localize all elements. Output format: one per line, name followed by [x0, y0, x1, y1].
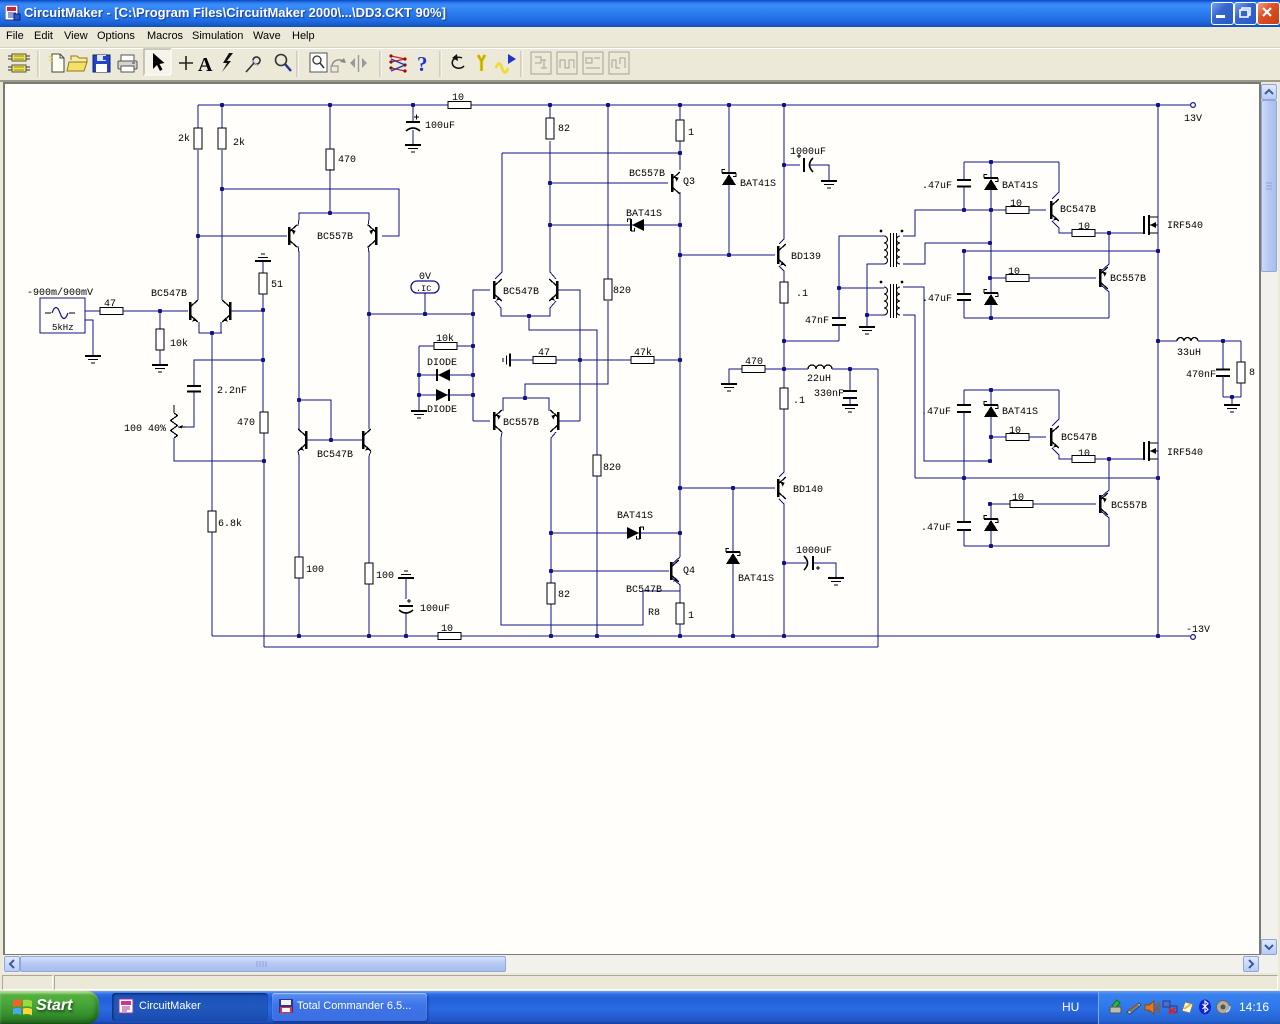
wire source return [85, 320, 93, 355]
wire output to feedback riser [850, 368, 878, 370]
capacitor 100uF (bottom, -13V) [398, 577, 414, 579]
toolbar icon: zoom [276, 55, 287, 66]
wire emitters to 820 load [525, 301, 608, 398]
wire gnd to 47 [510, 359, 533, 361]
wire node down to output pair base [579, 360, 581, 421]
diode BAT41S (clamp upper) [630, 219, 632, 231]
menu bar [0, 27, 1280, 48]
inductor 22uH [784, 368, 808, 370]
svg-text:10: 10 [1009, 426, 1021, 437]
svg-text:10: 10 [1078, 222, 1090, 233]
wire right collector to 2k [221, 150, 223, 300]
transistor BC557B (lower driver) [1099, 495, 1102, 513]
source V1 -900m/900mV 5kHz [40, 298, 85, 333]
capacitor 2.2nF [187, 385, 201, 387]
wire lower pnp base node [991, 503, 1010, 505]
wire lower npn emitter [1052, 448, 1072, 459]
transistor BC547B (lower driver) [1050, 428, 1053, 446]
resistor 100 (left) [295, 557, 303, 578]
resistor R8 1 [676, 603, 684, 624]
wire lower pnp collector [1101, 459, 1109, 497]
svg-text:330nF: 330nF [814, 389, 844, 400]
svg-text:BC547B: BC547B [1060, 205, 1096, 216]
resistor 10k (input bias) [156, 329, 164, 350]
wire tail to -13V rail [211, 532, 213, 636]
wire comparator left collector [495, 153, 502, 279]
wire 470fb bottom node [263, 433, 265, 461]
ground (source) [85, 355, 101, 357]
diode BAT41S (rail upper) [722, 172, 736, 174]
toolbar icon: reset (circular arrow) [452, 57, 464, 68]
svg-text:2.2nF: 2.2nF [217, 386, 247, 397]
svg-text:100uF: 100uF [425, 121, 455, 132]
ground (1000uF upper) [821, 180, 837, 182]
transistor BD139 [777, 246, 780, 264]
transistor BC557B (upper driver) [1099, 269, 1102, 287]
capacitor .47uF (lower boot) [963, 390, 965, 405]
svg-text:DIODE: DIODE [427, 358, 457, 369]
capacitor 47nF [784, 340, 839, 342]
svg-text:10k: 10k [436, 333, 454, 345]
resistor 10 (lower npn base) [1006, 434, 1029, 441]
wire 51 to base node [262, 294, 264, 310]
wire BD140 base [680, 487, 775, 489]
resistor 10k (clamp) [434, 343, 457, 350]
wire Q3 base [550, 182, 668, 184]
wire mirror diode connection [299, 400, 331, 440]
mosfet IRF540 (upper) [1143, 216, 1145, 234]
transistor BC557B (2nd stage left) [288, 227, 291, 245]
svg-text:10k: 10k [170, 338, 188, 350]
resistor 8 (load) [1240, 341, 1242, 362]
svg-text:8: 8 [1249, 368, 1255, 379]
inductor 33uH [1158, 340, 1177, 342]
diode BAT41S (upper boot) [990, 162, 992, 177]
resistor 10 (bottom rail inline) [438, 633, 461, 640]
svg-text:BAT41S: BAT41S [617, 511, 653, 522]
svg-text:.47uF: .47uF [922, 294, 952, 305]
wire upper npn emitter [1052, 221, 1072, 233]
svg-text:10: 10 [1012, 493, 1024, 504]
wire left collector down [298, 246, 299, 429]
toolbar icon: open [67, 56, 87, 71]
task button Total Commander [272, 993, 427, 1021]
wire upper pnp base node [991, 277, 1006, 279]
svg-text:6.8k: 6.8k [218, 518, 242, 530]
svg-text:470: 470 [745, 357, 763, 368]
resistor 2k (left) [194, 128, 202, 149]
toolbar icon: rotate [332, 60, 344, 66]
wire diode chain column right [472, 314, 474, 421]
svg-text:10: 10 [1010, 199, 1022, 210]
svg-text:BAT41S: BAT41S [626, 209, 662, 220]
wire mirror right emitter [369, 451, 371, 563]
svg-text:1000uF: 1000uF [790, 147, 826, 158]
svg-text:?: ? [417, 52, 428, 76]
wire driver right collector [551, 432, 556, 636]
bluetooth [1199, 1000, 1211, 1015]
resistor 100 (right) [365, 563, 373, 584]
wire lower pnp emitter [1101, 511, 1109, 545]
resistor 47 (reference) [533, 357, 556, 364]
svg-text:100uF: 100uF [420, 604, 450, 615]
task button CircuitMaker (active) [112, 993, 268, 1021]
wire upper npn collector [1052, 162, 1059, 199]
svg-text:BC557B: BC557B [629, 169, 665, 180]
wire y153 driver top [502, 152, 680, 154]
wire upper mosfet column [1157, 104, 1159, 341]
svg-text:470nF: 470nF [1186, 370, 1216, 381]
status bar [0, 973, 1280, 991]
wire mirror left emitter [298, 451, 299, 557]
toolbar icon: Y wrench [478, 55, 485, 71]
wire lower block top rail [964, 389, 1059, 391]
svg-text:47: 47 [538, 348, 550, 359]
resistor 10 (upper npn base) [1006, 207, 1029, 214]
svg-text:BAT41S: BAT41S [1002, 181, 1038, 192]
svg-text:BAT41S: BAT41S [740, 179, 776, 190]
svg-text:100: 100 [376, 571, 394, 582]
audio/cd [1217, 1001, 1231, 1014]
transistor BC547B (upper driver) [1050, 201, 1053, 219]
transistor BC557B (2nd stage right) [375, 227, 378, 245]
svg-text:82: 82 [558, 124, 570, 135]
transistor BC557B (driver pair right) [557, 412, 560, 430]
wire BAT41S clamp lower [551, 532, 680, 534]
toolbar icon: wire tool + [179, 56, 193, 70]
wire -13V bottom rail [212, 635, 438, 637]
svg-text:BC557B: BC557B [317, 232, 353, 243]
wire 2k left collector node to PNP base [198, 235, 287, 237]
svg-text:A: A [198, 54, 213, 76]
svg-text:22uH: 22uH [807, 374, 831, 385]
wire T1 primary top [839, 236, 884, 288]
wire pot bottom to feedback rail [174, 438, 264, 461]
wire tail upper [211, 333, 213, 511]
svg-text:.1: .1 [796, 289, 808, 300]
wire T1 secondary top [903, 210, 964, 236]
wire BD139 base [680, 254, 775, 256]
diode BAT41S (rail lower) [726, 551, 740, 553]
volume [1145, 1001, 1160, 1014]
wire comparator right collector [550, 141, 556, 279]
svg-text:BAT41S: BAT41S [1002, 407, 1038, 418]
resistor 2k (right) [218, 128, 226, 149]
resistor 1 (Q3) [676, 120, 684, 141]
wire Q3 emitter node [679, 141, 681, 153]
wire lower mosfet column [1157, 341, 1159, 637]
wire 10k to ground [159, 350, 161, 364]
wire IC node horizontal [369, 313, 473, 315]
resistor 47 (input) [100, 308, 123, 315]
vertical scrollbar [1261, 84, 1278, 955]
title bar [0, 0, 1280, 27]
wire comparator left base [473, 290, 490, 314]
svg-text:BD139: BD139 [791, 252, 821, 263]
svg-text:BC557B: BC557B [503, 418, 539, 429]
svg-text:82: 82 [558, 590, 570, 601]
tray icons [1108, 999, 1236, 1016]
svg-text:2k: 2k [178, 133, 190, 145]
toolbar icon: print [118, 55, 137, 72]
wire upper pnp emitter [1101, 285, 1109, 318]
resistor 10 (top rail inline) [448, 102, 471, 109]
svg-text:10: 10 [1008, 267, 1020, 278]
transistor BC547B (input pair right) [229, 302, 232, 320]
printer/white [1182, 1002, 1193, 1013]
wire 10k leg [159, 311, 161, 329]
wire BAT41S clamp upper [550, 224, 680, 226]
wire Q4 collector [672, 557, 680, 564]
svg-text:1: 1 [688, 128, 694, 139]
resistor 82 (comparator load) [546, 118, 554, 139]
diode DIODE (lower clamp) [419, 394, 473, 396]
wire BAT41S rail diode upper [728, 105, 730, 172]
capacitor 1000uF (lower) [784, 562, 806, 564]
toolbar icon: zoom page [310, 53, 327, 72]
resistor 10 (upper gate) [1072, 230, 1095, 237]
resistor 51 [259, 273, 267, 294]
toolbar icon: run simulation [496, 64, 508, 73]
svg-text:R8: R8 [648, 608, 660, 619]
capacitor .47uF (upper 2) [963, 251, 965, 294]
wire lower block bottom [964, 545, 1109, 546]
svg-text:33uH: 33uH [1177, 348, 1201, 359]
ground (transformers) [866, 315, 868, 326]
resistor 820 (comparator tail) [593, 455, 601, 476]
node 13V terminal [1191, 103, 1196, 108]
transistor BC547B (mirror left) [305, 431, 308, 449]
toolbar icon: delete (lightning) [222, 53, 233, 72]
window buttons [1211, 2, 1234, 25]
svg-text:BC557B: BC557B [1110, 274, 1146, 285]
transistor BD140 [777, 479, 780, 497]
resistor 10 (upper pnp base) [1006, 275, 1029, 282]
svg-text:.47uF: .47uF [921, 407, 951, 418]
wire Q3 collector bus [679, 192, 681, 225]
toolbar button: arrow tool (pressed) [144, 49, 171, 75]
toolbar icon: mirror [350, 58, 355, 68]
ground (330nF) [842, 404, 858, 406]
network error [1163, 1001, 1177, 1014]
diode BAT41S (clamp lower) [639, 527, 641, 539]
clock [1239, 1000, 1269, 1014]
svg-text:.47uF: .47uF [922, 181, 952, 192]
svg-text:2k: 2k [233, 137, 245, 149]
toolbar icon: wire colors [391, 56, 405, 71]
svg-text:1000uF: 1000uF [796, 546, 832, 557]
wire T1 secondary bottom [903, 243, 990, 264]
svg-text:.IC: .IC [416, 284, 431, 294]
wire diode chain column left [418, 346, 420, 410]
wire comparator right base to fb node [558, 290, 580, 360]
svg-text:100: 100 [306, 565, 324, 576]
resistor 82 (driver right) [547, 583, 555, 604]
svg-text:.1: .1 [793, 396, 805, 407]
transistor BC547B (mirror right) [362, 431, 365, 449]
wire emitters to 470 [298, 213, 369, 226]
wire T2 primary top [839, 287, 884, 289]
svg-text:.47uF: .47uF [921, 523, 951, 534]
svg-text:13V: 13V [1184, 114, 1202, 125]
tray divider + HU [1062, 1000, 1079, 1014]
resistor 6.8k (tail) [208, 511, 216, 532]
resistor 10 (lower gate) [1072, 456, 1095, 463]
svg-text:51: 51 [271, 280, 283, 291]
app icon [5, 5, 21, 21]
svg-text:IRF540: IRF540 [1167, 221, 1203, 232]
svg-text:IRF540: IRF540 [1167, 448, 1203, 459]
svg-text:-13V: -13V [1186, 625, 1210, 636]
transistor BC557B (driver pair left) [493, 412, 496, 430]
svg-text:BC547B: BC547B [503, 287, 539, 298]
svg-text:Q3: Q3 [683, 177, 695, 188]
start button [0, 991, 99, 1024]
wire comparator tail to 820 [529, 316, 597, 455]
wire right base to 51 [231, 310, 263, 312]
resistor 820 (load) [604, 279, 612, 300]
wire upper gate node [915, 209, 1006, 211]
capacitor 470nF [1222, 341, 1224, 369]
toolbar icon: device select [8, 54, 30, 72]
capacitor .47uF (lower 2) [963, 478, 965, 522]
wire Q4 base [551, 570, 669, 572]
wire lower source rail [915, 477, 1158, 479]
toolbar buttons: scope group (disabled) [531, 52, 629, 74]
wire NFB column [262, 310, 264, 412]
svg-text:5kHz: 5kHz [52, 323, 74, 333]
wire driver pair right base [559, 420, 580, 422]
capacitor 330nF [849, 369, 851, 391]
transformer T1 [884, 236, 888, 264]
graphics [1127, 1003, 1141, 1014]
toolbar icon: save [93, 55, 110, 72]
transistor BC547B (comparator left) [493, 281, 496, 299]
wire T1 primary bottom to ground [867, 264, 884, 315]
wire load bottom [1223, 396, 1241, 398]
ground (1000uF lower) [828, 577, 844, 579]
resistor .1 (BD139) [780, 282, 788, 303]
wire BD140 collector [779, 499, 784, 636]
ground (inverted, above 51) [255, 260, 271, 262]
svg-text:10: 10 [441, 624, 453, 635]
wire right collector down [368, 246, 369, 429]
wire 470 gnd leg [729, 369, 742, 383]
wire driver emitters common [503, 398, 549, 411]
wire lower npn collector [1052, 390, 1059, 426]
wire mirror bases [307, 439, 362, 441]
ground (diode chain) [411, 410, 427, 412]
taskbar [0, 991, 1280, 1024]
transformer T2 [884, 287, 888, 315]
svg-text:BD140: BD140 [793, 485, 823, 496]
resistor 47k (feedback) [631, 357, 654, 364]
wire x990 link column (upper) [990, 210, 992, 292]
svg-text:BC547B: BC547B [317, 450, 353, 461]
wire Q4 emitter node [672, 578, 680, 603]
resistor .1 (BD140) [783, 369, 785, 388]
wire comparator emitters [495, 301, 556, 316]
capacitor 1000uF (upper) [784, 164, 800, 166]
svg-text:47nF: 47nF [805, 316, 829, 327]
diode BAT41S (upper 2) [984, 292, 998, 294]
svg-text:10: 10 [452, 93, 464, 104]
wire output node upper [783, 303, 785, 341]
svg-text:100 40%: 100 40% [124, 424, 166, 435]
wire 47 to node [556, 359, 580, 361]
wire 2k right collector node to PNP base [222, 189, 399, 236]
diode BAT41S (lower boot) [990, 390, 992, 404]
safely remove [1110, 1000, 1121, 1013]
resistor 470 (feedback) [260, 412, 268, 433]
wire source output [85, 310, 100, 312]
wire input node [123, 310, 188, 312]
svg-text:DIODE: DIODE [427, 405, 457, 416]
svg-text:BC547B: BC547B [1061, 433, 1097, 444]
wire lower npn base node [991, 436, 1006, 438]
wire driver pair left base [473, 420, 490, 422]
wire upper source rail [964, 250, 1158, 252]
svg-text:Q4: Q4 [683, 566, 695, 577]
transistor BC547B (comparator right) [556, 281, 559, 299]
ground (10k) [152, 364, 168, 366]
wire T2 secondary top [903, 287, 990, 461]
wire emitters common [199, 322, 222, 333]
wire BAT41S rail diode lower [732, 488, 734, 551]
capacitor 100uF (top, +13V) [412, 105, 414, 122]
capacitor .47uF (upper boot) [963, 162, 965, 180]
resistor 10 (lower pnp base) [1010, 501, 1033, 508]
wire T2 primary bottom [867, 314, 884, 316]
toolbar icon: new [49, 54, 64, 72]
wire T2 secondary bottom [903, 315, 915, 478]
wire driver left collector to Q4 base loop [501, 432, 680, 625]
node -13V terminal [1191, 635, 1196, 640]
wire 2.2nF to pot wiper [186, 392, 194, 428]
horizontal scrollbar [3, 955, 1278, 973]
wire 2.2nF branch [194, 360, 263, 385]
ground (load) [1224, 404, 1240, 406]
svg-text:47k: 47k [634, 347, 652, 359]
svg-text:820: 820 [613, 286, 631, 297]
svg-text:BC557B: BC557B [1111, 501, 1147, 512]
wire BD140 emitter to .1 [779, 409, 784, 477]
wire left collector to 2k [197, 150, 199, 300]
wire upper block bootstrap rail [964, 161, 1059, 163]
toolbar [0, 48, 1280, 81]
diode BAT41S (lower 2) [990, 504, 992, 518]
toolbar icon: probe [246, 57, 260, 72]
ground (470) [721, 383, 737, 385]
wire upper block bottom [964, 317, 1109, 319]
wire BD139 collector to +13 [779, 105, 784, 244]
svg-text:470: 470 [338, 155, 356, 166]
wire feedback rail (bottom) [264, 646, 878, 648]
mosfet IRF540 (lower) [1143, 442, 1145, 460]
svg-text:1: 1 [688, 611, 694, 622]
svg-text:470: 470 [237, 418, 255, 429]
wire BD139 emitter [779, 266, 784, 282]
svg-text:820: 820 [603, 463, 621, 474]
svg-text:-900m/900mV: -900m/900mV [27, 287, 93, 299]
svg-text:BAT41S: BAT41S [738, 574, 774, 585]
resistor 470 (2nd stage) [326, 149, 334, 170]
wire upper pnp collector [1101, 233, 1109, 271]
resistor 470 (output) [742, 366, 765, 373]
ground (100uF top) [405, 144, 421, 146]
svg-text:47: 47 [104, 299, 116, 310]
svg-text:BC547B: BC547B [626, 585, 662, 596]
